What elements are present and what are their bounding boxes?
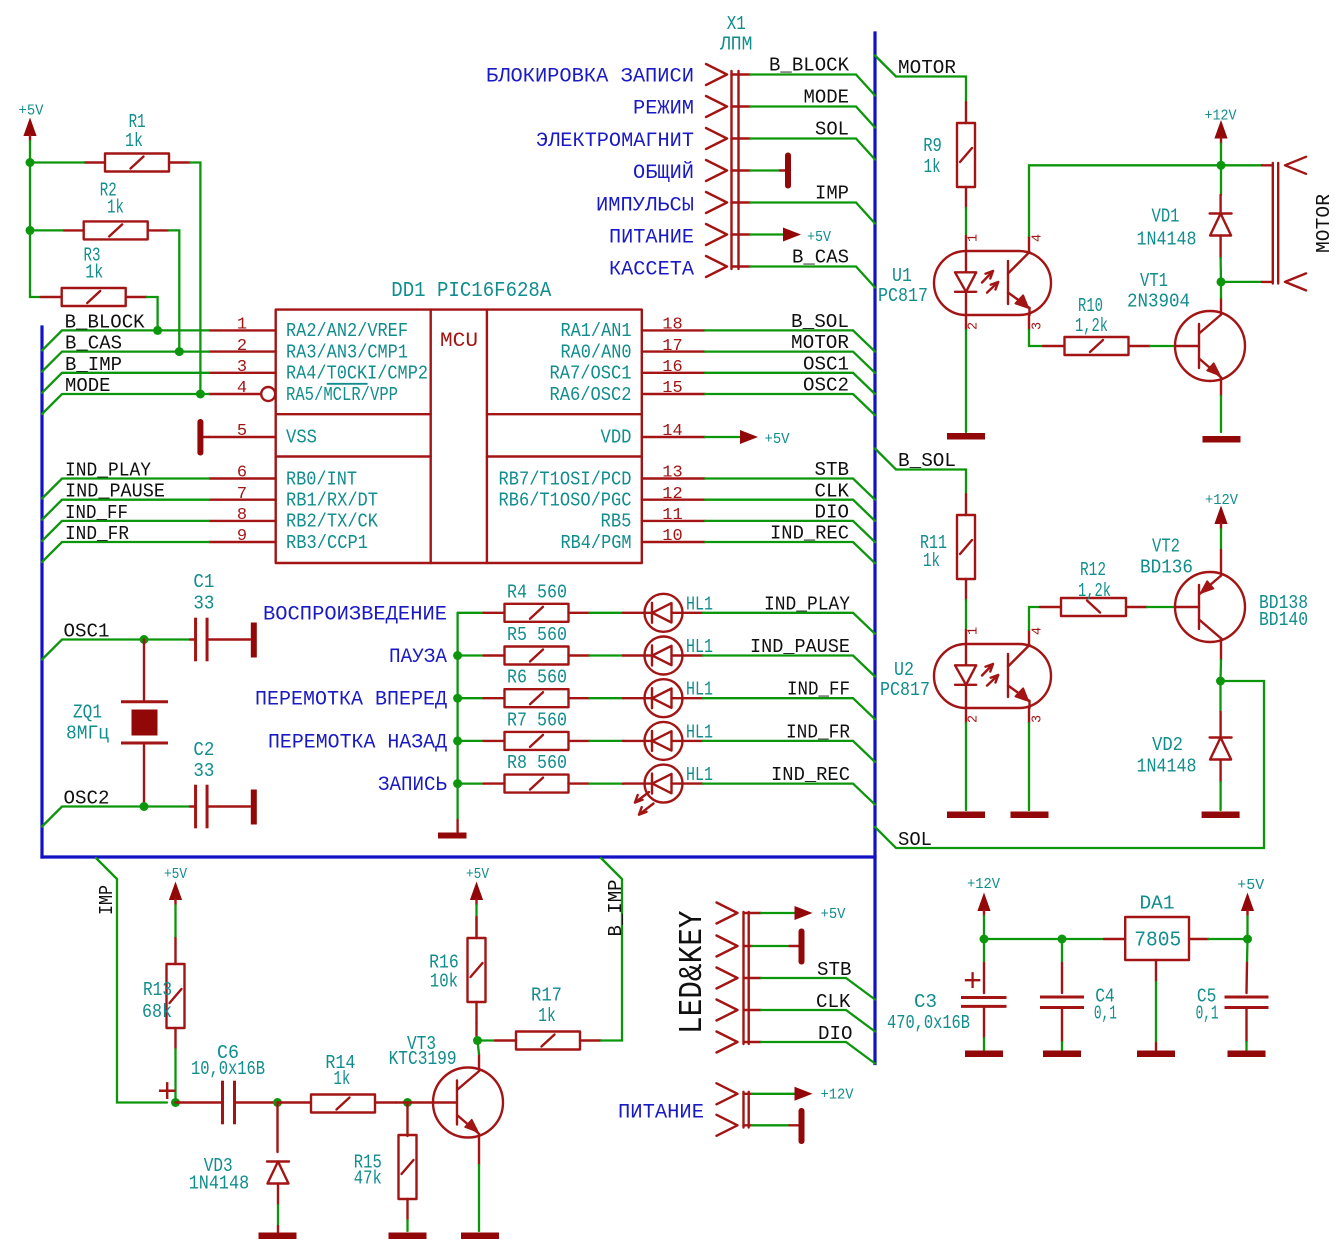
svg-text:MODE: MODE	[65, 375, 111, 397]
ground (C3)	[965, 1051, 1003, 1058]
crystal ZQ1 8МГц	[66, 640, 168, 807]
svg-text:1: 1	[237, 316, 247, 335]
ground (C4)	[1043, 1051, 1081, 1058]
resistor R14 1k	[278, 1052, 397, 1112]
svg-text:2: 2	[967, 322, 982, 330]
net DIO (pin11 to bus)	[705, 502, 875, 543]
ground (R15)	[389, 1233, 427, 1240]
net OSC2 (pin15 to bus)	[705, 375, 875, 416]
svg-text:R17: R17	[531, 985, 562, 1007]
net MODE (bus to pin4)	[42, 375, 209, 414]
transistor VT2 BD136	[1140, 536, 1308, 643]
resistor R3	[41, 245, 147, 307]
svg-text:17: 17	[662, 337, 682, 356]
wire VT3 collector	[478, 1054, 480, 1071]
svg-text:BD140: BD140	[1259, 609, 1308, 631]
svg-text:ЭЛЕКТРОМАГНИТ: ЭЛЕКТРОМАГНИТ	[536, 130, 694, 153]
regulator DA1 7805	[1104, 893, 1209, 983]
net SOL (bus to VT2/VD2)	[875, 681, 1264, 851]
svg-text:RB2/TX/CK: RB2/TX/CK	[286, 511, 379, 533]
wire LED anode rail	[456, 613, 458, 820]
resistor R15 47k	[354, 1103, 417, 1232]
resistor R16 10k	[429, 917, 485, 1041]
junction rail/ЗАПИСЬ	[453, 779, 462, 788]
resistor R7 560	[458, 709, 590, 750]
net B_CAS (X1 pin7 to bus)	[732, 247, 876, 288]
wire U2 pin2 to ground	[965, 708, 967, 723]
svg-text:SOL: SOL	[898, 829, 932, 851]
junction C5/+5V	[1243, 935, 1252, 944]
svg-text:X1: X1	[727, 13, 746, 35]
ground (LED rail)	[438, 820, 467, 839]
svg-text:IND_FR: IND_FR	[65, 523, 129, 545]
svg-text:MODE: MODE	[804, 87, 850, 109]
junction C4	[1058, 935, 1067, 944]
svg-text:VT1: VT1	[1140, 270, 1168, 292]
power +12V (supply input)	[967, 876, 1000, 939]
net B_BLOCK (bus to pin1)	[42, 311, 209, 350]
svg-text:IND_REC: IND_REC	[771, 764, 850, 786]
wire +5V rail vertical	[30, 141, 40, 297]
pin 18 RA1/AN1	[561, 316, 706, 343]
svg-text:VD2: VD2	[1152, 734, 1183, 756]
svg-text:1,2k: 1,2k	[1075, 315, 1108, 337]
svg-text:1N4148: 1N4148	[1137, 228, 1197, 250]
net IND_PLAY (HL1 to bus)	[703, 593, 875, 634]
X1 pin 6 arrow	[706, 224, 727, 245]
svg-text:33: 33	[193, 760, 214, 782]
svg-text:B_CAS: B_CAS	[65, 333, 122, 355]
svg-text:KTC3199: KTC3199	[389, 1048, 457, 1070]
junction +5V/R2	[26, 226, 35, 235]
junction C3/+12V	[980, 935, 989, 944]
resistor R6 560	[458, 667, 590, 708]
svg-text:OSC1: OSC1	[803, 353, 849, 375]
svg-text:RA7/OSC1: RA7/OSC1	[550, 363, 632, 385]
pin 16 RA7/OSC1	[550, 358, 706, 385]
svg-text:R9: R9	[923, 135, 942, 157]
junction C6/VD3/R14	[273, 1098, 282, 1107]
capacitor C6 10,0x16В	[157, 1042, 278, 1124]
ground (U2 pin3)	[1011, 812, 1049, 819]
svg-text:+5V: +5V	[821, 906, 846, 923]
svg-text:IND_PLAY: IND_PLAY	[65, 460, 151, 482]
LED&KEY pin 1 arrow	[717, 903, 738, 924]
svg-text:R5 560: R5 560	[507, 624, 567, 646]
pin 3 RA4/T0CKI/CMP2	[209, 358, 428, 385]
svg-text:R4 560: R4 560	[507, 581, 567, 603]
svg-text:C3: C3	[914, 991, 937, 1013]
svg-text:R7 560: R7 560	[507, 709, 567, 731]
svg-text:11: 11	[662, 506, 682, 525]
capacitor C1	[190, 571, 250, 661]
svg-text:MOTOR: MOTOR	[791, 332, 849, 354]
svg-text:+: +	[157, 1075, 177, 1113]
svg-text:9: 9	[237, 527, 247, 546]
svg-text:ПЕРЕМОТКА ВПЕРЕД: ПЕРЕМОТКА ВПЕРЕД	[255, 689, 447, 712]
X1 pin 4 arrow	[706, 160, 727, 181]
wire R2 right to B_CAS	[169, 230, 180, 351]
ground (C1)	[251, 623, 257, 658]
resistor R17 1k	[477, 985, 602, 1050]
svg-text:+12V: +12V	[1205, 108, 1237, 125]
connector LED&KEY	[674, 910, 749, 1044]
LED HL1 (pause)	[623, 636, 713, 675]
power +5V (LED&KEY)	[744, 906, 846, 923]
svg-text:BD136: BD136	[1140, 557, 1193, 579]
pin 9 RB3/CCP1	[209, 527, 368, 554]
svg-text:RB7/T1OSI/PCD: RB7/T1OSI/PCD	[499, 468, 632, 490]
wire R2 left	[30, 229, 63, 231]
svg-text:РЕЖИМ: РЕЖИМ	[633, 98, 694, 121]
net B_IMP (bus to pin3)	[42, 354, 209, 393]
svg-text:8: 8	[237, 506, 247, 525]
capacitor C5 0,1	[1196, 939, 1269, 1050]
svg-text:15: 15	[662, 379, 682, 398]
X1 pin 7 arrow	[706, 256, 727, 277]
wire R4 to HL1	[590, 612, 625, 614]
svg-text:4: 4	[1031, 234, 1046, 242]
wire R3 right to B_BLOCK	[147, 297, 158, 330]
svg-text:13: 13	[662, 464, 682, 483]
svg-text:ИМПУЛЬСЫ: ИМПУЛЬСЫ	[596, 194, 694, 217]
svg-text:C1: C1	[193, 571, 214, 593]
wire R6 to HL1	[590, 697, 625, 699]
net OSC1 (pin16 to bus)	[705, 353, 875, 394]
svg-text:RB5: RB5	[601, 511, 632, 533]
ground (VT3)	[461, 1233, 499, 1240]
svg-text:B_SOL: B_SOL	[898, 450, 956, 472]
svg-text:6: 6	[237, 464, 247, 483]
ПИТАНИЕ pin 1 arrow	[717, 1083, 738, 1104]
svg-text:U1: U1	[892, 265, 912, 287]
svg-text:1: 1	[967, 627, 982, 635]
net OSC2 (bus to crystal)	[42, 788, 190, 827]
svg-text:DIO: DIO	[818, 1023, 853, 1045]
svg-text:B_SOL: B_SOL	[791, 311, 849, 333]
svg-text:1k: 1k	[923, 550, 940, 572]
wire R1 left	[30, 161, 84, 163]
resistor R10 1,2k	[1043, 295, 1150, 355]
diode VD3 1N4148	[189, 1103, 289, 1233]
svg-text:VT2: VT2	[1152, 536, 1180, 558]
net B_CAS (bus to pin2)	[42, 333, 209, 372]
wire R14 to VT3 base	[396, 1101, 434, 1103]
wire VT1 collector	[1220, 298, 1222, 315]
net IMP (bus to R13/C6)	[96, 858, 167, 1103]
svg-text:8МГц: 8МГц	[66, 723, 110, 745]
wire DA1 ground	[1155, 982, 1157, 1043]
svg-text:R6 560: R6 560	[507, 667, 567, 689]
svg-text:RA1/AN1: RA1/AN1	[561, 320, 632, 342]
svg-text:2N3904: 2N3904	[1127, 291, 1190, 313]
svg-text:OSC2: OSC2	[803, 375, 849, 397]
net MOTOR (pin17 to bus)	[705, 332, 875, 373]
svg-text:B_IMP: B_IMP	[605, 880, 627, 937]
power +12V (ПИТАНИЕ)	[744, 1087, 854, 1104]
svg-text:+12V: +12V	[1205, 492, 1238, 509]
connector X1 ЛПМ	[719, 13, 752, 269]
pin 13 RB7/T1OSI/PCD	[499, 464, 706, 491]
pin 10 RB4/PGM	[561, 527, 706, 554]
svg-text:+: +	[963, 964, 982, 1001]
LED HL1 (fr)	[623, 721, 713, 760]
svg-text:1k: 1k	[125, 130, 143, 152]
svg-text:B_IMP: B_IMP	[65, 354, 122, 376]
junction rail/ПЕРЕМОТКА НАЗАД	[453, 736, 462, 745]
svg-text:RB1/RX/DT: RB1/RX/DT	[286, 490, 378, 512]
svg-text:1N4148: 1N4148	[1137, 756, 1197, 778]
capacitor C4 0,1	[1040, 939, 1117, 1050]
net IND_FF (HL1 to bus)	[703, 679, 875, 720]
svg-text:MOTOR: MOTOR	[898, 57, 956, 79]
svg-text:1k: 1k	[85, 262, 103, 284]
op-amp U2 PC817 (optocoupler)	[880, 627, 1051, 723]
svg-text:1k: 1k	[107, 197, 124, 219]
svg-text:IND_FR: IND_FR	[786, 721, 850, 743]
svg-text:4: 4	[237, 379, 247, 398]
ground (VD3)	[259, 1233, 297, 1240]
svg-text:OSC2: OSC2	[64, 788, 110, 810]
pin 4 RA5/MCLR/VPP (inverted)	[209, 379, 398, 406]
svg-text:RA0/AN0: RA0/AN0	[561, 341, 632, 363]
svg-text:U2: U2	[894, 659, 914, 681]
svg-text:14: 14	[662, 422, 682, 441]
junction R13/C6	[171, 1098, 180, 1107]
LED&KEY pin 2 arrow	[717, 936, 738, 957]
pin 5 VSS	[209, 422, 317, 449]
svg-text:ВОСПРОИЗВЕДЕНИЕ: ВОСПРОИЗВЕДЕНИЕ	[263, 603, 447, 626]
svg-text:STB: STB	[815, 459, 850, 481]
svg-text:R13: R13	[143, 979, 172, 1001]
power +5V (X1 pin6 ПИТАНИЕ)	[732, 228, 832, 247]
junction OSC1/ZQ1	[140, 635, 149, 644]
bus bottom horizontal	[42, 855, 875, 858]
svg-text:1N4148: 1N4148	[189, 1172, 250, 1194]
svg-text:B_BLOCK: B_BLOCK	[65, 311, 145, 333]
svg-text:5: 5	[237, 422, 247, 441]
svg-text:RB3/CCP1: RB3/CCP1	[286, 532, 368, 554]
svg-text:47k: 47k	[354, 1168, 382, 1190]
net DIO (LED&KEY to bus)	[744, 1023, 876, 1064]
ground (U2 pin2)	[947, 812, 985, 819]
svg-text:RB0/INT: RB0/INT	[286, 468, 357, 490]
power +5V (supply output)	[1237, 877, 1264, 939]
bus right vertical	[873, 33, 876, 1064]
resistor R8 560	[458, 752, 590, 793]
net MODE (X1 pin2 to bus)	[732, 87, 876, 128]
svg-text:7: 7	[237, 485, 247, 504]
svg-text:DIO: DIO	[815, 502, 850, 524]
svg-text:ПЕРЕМОТКА НАЗАД: ПЕРЕМОТКА НАЗАД	[268, 731, 447, 754]
svg-text:RA3/AN3/CMP1: RA3/AN3/CMP1	[286, 341, 408, 363]
junction R2/B_CAS	[175, 347, 184, 356]
svg-text:БЛОКИРОВКА ЗАПИСИ: БЛОКИРОВКА ЗАПИСИ	[486, 66, 694, 89]
svg-text:VDD: VDD	[601, 427, 632, 449]
connector MOTOR (2 pins)	[1262, 157, 1335, 291]
pin 17 RA0/AN0	[561, 337, 706, 364]
net IND_FR (HL1 to bus)	[703, 721, 875, 762]
wire R5 to HL1	[590, 654, 625, 656]
svg-text:ZQ1: ZQ1	[73, 702, 102, 724]
ground (U1 pin2)	[947, 433, 985, 440]
ground (VT1)	[1203, 436, 1241, 443]
svg-text:IMP: IMP	[96, 885, 118, 915]
svg-text:C2: C2	[193, 739, 214, 761]
net IND_FR (bus to pin9)	[42, 523, 209, 562]
svg-text:1: 1	[967, 234, 982, 242]
svg-text:MCU: MCU	[440, 330, 478, 353]
LED HL1 (play)	[623, 593, 713, 632]
svg-text:IND_FF: IND_FF	[65, 502, 128, 524]
wire motor pin2	[1221, 281, 1262, 283]
svg-text:B_BLOCK: B_BLOCK	[769, 55, 849, 77]
svg-text:1k: 1k	[924, 156, 941, 178]
pin 12 RB6/T1OSO/PGC	[499, 485, 706, 512]
LED HL1 (ff)	[623, 679, 713, 718]
svg-text:10,0x16В: 10,0x16В	[191, 1058, 265, 1080]
svg-text:VSS: VSS	[286, 427, 317, 449]
wire R1 right to MODE	[190, 163, 200, 395]
svg-text:RA4/T0CKI/CMP2: RA4/T0CKI/CMP2	[286, 363, 428, 385]
pin 15 RA6/OSC2	[550, 379, 706, 406]
junction VT2/VD2/SOL	[1216, 677, 1225, 686]
wire U2 pin3 to ground	[1028, 708, 1030, 723]
junction rail/ПАУЗА	[453, 651, 462, 660]
svg-text:ПАУЗА: ПАУЗА	[389, 646, 448, 669]
pin 7 RB1/RX/DT	[209, 485, 378, 512]
ground (VSS)	[197, 419, 209, 456]
svg-text:PC817: PC817	[878, 285, 928, 307]
wire R11 to U2 pin1	[965, 600, 967, 630]
wire U2 pin4 to R12	[1029, 607, 1040, 645]
ground (DA1)	[1137, 1051, 1175, 1058]
MCU DD1 PIC16F628A body	[276, 280, 642, 563]
LED&KEY pin 5 arrow	[717, 1032, 738, 1053]
svg-text:18: 18	[662, 316, 682, 335]
net CLK (LED&KEY to bus)	[744, 991, 876, 1032]
svg-text:MOTOR: MOTOR	[1313, 194, 1335, 253]
diode VD2 1N4148	[1137, 681, 1232, 810]
diode VD1 1N4148	[1137, 165, 1232, 282]
svg-text:RA5/MCLR/VPP: RA5/MCLR/VPP	[286, 384, 398, 406]
net STB (LED&KEY to bus)	[744, 959, 876, 1000]
svg-text:+5V: +5V	[765, 431, 790, 448]
svg-text:10k: 10k	[430, 971, 458, 993]
junction VT3/R16/R17	[473, 1036, 482, 1045]
svg-text:OSC1: OSC1	[64, 621, 110, 643]
svg-text:IND_PAUSE: IND_PAUSE	[65, 481, 165, 503]
X1 pin 3 arrow	[706, 128, 727, 149]
net SOL (X1 pin3 to bus)	[732, 119, 876, 160]
svg-text:3: 3	[1031, 322, 1046, 330]
svg-text:IND_PAUSE: IND_PAUSE	[750, 636, 850, 658]
svg-text:ЛПМ: ЛПМ	[719, 34, 752, 56]
wire VT3 emitter to ground	[478, 1134, 480, 1165]
resistor R13 68k	[142, 938, 185, 1103]
ground (LED&KEY)	[744, 929, 805, 965]
svg-text:STB: STB	[817, 959, 852, 981]
transistor VT1 2N3904	[1127, 270, 1245, 381]
svg-text:+5V: +5V	[807, 229, 831, 246]
svg-text:4: 4	[1031, 627, 1046, 635]
X1 pin 1 arrow	[706, 64, 727, 85]
net IND_PAUSE (bus to pin7)	[42, 481, 209, 520]
net IND_FF (bus to pin8)	[42, 502, 209, 541]
svg-text:ПИТАНИЕ: ПИТАНИЕ	[618, 1102, 704, 1125]
svg-text:3: 3	[237, 358, 247, 377]
pin 6 RB0/INT	[209, 464, 357, 491]
svg-text:LED&KEY: LED&KEY	[674, 910, 711, 1034]
svg-text:33: 33	[193, 593, 214, 615]
capacitor C3 470,0x16В	[887, 939, 1007, 1050]
junction rail/ПЕРЕМОТКА ВПЕРЕД	[453, 694, 462, 703]
svg-text:+5V: +5V	[19, 103, 44, 120]
svg-text:470,0x16В: 470,0x16В	[887, 1012, 970, 1034]
resistor R11	[920, 494, 975, 600]
svg-text:IND_PLAY: IND_PLAY	[764, 593, 850, 615]
svg-text:1,2k: 1,2k	[1078, 580, 1111, 602]
connector ПИТАНИЕ	[618, 1092, 749, 1128]
LED HL1 (rec)	[623, 764, 713, 815]
svg-text:3: 3	[1031, 715, 1046, 723]
transistor VT3 KTC3199	[389, 1033, 503, 1138]
svg-text:16: 16	[662, 358, 682, 377]
svg-text:12: 12	[662, 485, 682, 504]
resistor R12 1,2k	[1040, 559, 1147, 616]
resistor R4 560	[458, 581, 590, 622]
junction R14/R15/VT3	[403, 1098, 412, 1107]
wire R7 to HL1	[590, 740, 625, 742]
wire R9 to U1 pin1	[965, 208, 967, 236]
wire +12V to motor rail	[1220, 144, 1222, 166]
net MOTOR (bus to R9)	[875, 56, 966, 103]
net IND_PLAY (bus to pin6)	[42, 460, 209, 499]
resistor R1	[84, 111, 190, 172]
power +5V (VDD)	[705, 430, 790, 448]
net OSC1 (bus to crystal)	[42, 621, 190, 660]
pin 2 RA3/AN3/CMP1	[209, 337, 408, 364]
svg-text:DD1 PIC16F628A: DD1 PIC16F628A	[391, 280, 551, 303]
X1 pin 5 arrow	[706, 192, 727, 213]
pin 14 VDD	[601, 422, 706, 449]
pin 1 RA2/AN2/VREF	[209, 316, 408, 343]
svg-text:RA6/OSC2: RA6/OSC2	[550, 384, 632, 406]
svg-text:0,1: 0,1	[1094, 1003, 1117, 1025]
wire U1 pin4 to motor rail	[1029, 165, 1262, 251]
wire VT2 collector	[1219, 639, 1222, 682]
svg-text:ПИТАНИЕ: ПИТАНИЕ	[609, 227, 694, 250]
pin 11 RB5	[601, 506, 706, 533]
ground (ПИТАНИЕ)	[744, 1108, 805, 1144]
net B_SOL (bus to R11)	[875, 449, 966, 495]
svg-text:КАССЕТА: КАССЕТА	[609, 259, 695, 282]
junction R3/B_BLOCK	[153, 326, 162, 335]
svg-text:0,1: 0,1	[1196, 1003, 1219, 1025]
wire U1 pin3 to R10	[1028, 315, 1030, 330]
svg-text:DA1: DA1	[1140, 893, 1175, 915]
junction +5V/R1	[26, 158, 35, 167]
svg-text:RA2/AN2/VREF: RA2/AN2/VREF	[286, 320, 408, 342]
svg-text:+12V: +12V	[967, 876, 1000, 893]
net B_SOL (pin18 to bus)	[705, 311, 875, 352]
wire VT1 emitter to ground	[1220, 378, 1222, 397]
svg-text:+12V: +12V	[821, 1087, 854, 1104]
wire R10 to VT1 base	[1150, 345, 1176, 347]
svg-text:CLK: CLK	[815, 480, 850, 502]
ground (C2)	[251, 790, 257, 825]
junction VD1/VT1/motor	[1217, 277, 1226, 286]
